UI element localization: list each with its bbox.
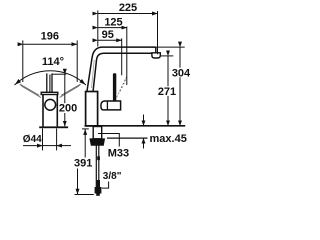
- arc arrowhead left: [15, 79, 21, 85]
- svg-text:391: 391: [74, 157, 92, 169]
- svg-text:M33: M33: [108, 147, 129, 159]
- dim 271 vertical: [167, 56, 169, 126]
- dim 95 right ext: [121, 38, 123, 75]
- svg-text:125: 125: [104, 16, 122, 28]
- svg-text:225: 225: [119, 2, 137, 14]
- front spout tube lines: [46, 73, 48, 92]
- M33 threaded shank: [93, 127, 102, 139]
- svg-text:304: 304: [172, 67, 191, 79]
- dim 391 top ext tick: [82, 128, 89, 130]
- counter top line: [85, 125, 186, 127]
- svg-text:3/8": 3/8": [103, 171, 122, 182]
- ext line left shared 225/125/95: [97, 10, 99, 46]
- lever ghost text speckles: [120, 80, 126, 92]
- lever tilted ghost line: [117, 76, 127, 98]
- ext line 304 top: [152, 46, 185, 48]
- hose sleeve: [97, 156, 100, 160]
- svg-text:196: 196: [41, 31, 59, 43]
- swung spout ghost right: [60, 84, 81, 97]
- spout inner shading line: [92, 60, 95, 88]
- dim 125 line: [98, 27, 127, 29]
- dim 391 lower segment: [77, 169, 79, 195]
- svg-text:271: 271: [158, 86, 176, 98]
- dim o44 left ext: [42, 128, 44, 150]
- svg-text:200: 200: [59, 103, 77, 115]
- dim 200 vertical: [64, 74, 66, 126]
- dim 225 line: [98, 13, 158, 15]
- column sides: [42, 95, 44, 127]
- ext line 271 top: [161, 55, 173, 57]
- dim o44 line left tail with arrow: [23, 145, 43, 147]
- label 304: [173, 68, 191, 78]
- dim 196 right ext: [76, 40, 78, 82]
- ball circle: [45, 99, 56, 110]
- dim 200 top ext: [52, 73, 66, 75]
- svg-text:114°: 114°: [42, 56, 64, 68]
- mounting nut: [90, 139, 105, 146]
- swung spout ghost left: [20, 84, 41, 97]
- swivel arc 114: [15, 71, 86, 85]
- dim max45 upper arrow: [143, 115, 145, 126]
- label 200: [60, 103, 76, 113]
- swivel cap bar: [41, 92, 58, 94]
- arc arrowhead right: [79, 79, 85, 85]
- base bar: [39, 126, 68, 128]
- connector stub: [96, 194, 100, 196]
- handle housing: [101, 101, 121, 110]
- svg-text:Ø44: Ø44: [23, 134, 42, 145]
- dim o44 right ext: [56, 128, 58, 150]
- dim max45 lower arrow: [143, 138, 145, 148]
- lever rod: [113, 73, 116, 101]
- dim 225 right ext: [157, 11, 159, 54]
- svg-text:95: 95: [102, 29, 114, 41]
- dim 125 right ext: [126, 27, 128, 86]
- dim 391 upper segment: [84, 129, 86, 157]
- dim 95 line: [98, 39, 122, 41]
- hose lower dark segment: [97, 180, 100, 187]
- svg-text:max.45: max.45: [150, 133, 187, 145]
- dim o44 right tail with arrow: [57, 145, 71, 147]
- dim 304 vertical: [179, 47, 181, 126]
- counter bottom line: [107, 137, 148, 139]
- dim o44 middle segment: [43, 145, 57, 147]
- M33 leader: [98, 134, 119, 147]
- label 271: [159, 86, 176, 96]
- dim 196 line: [23, 43, 77, 45]
- aerator tip: [152, 53, 160, 58]
- dim 391 bottom ext tick: [75, 194, 94, 196]
- body (cartridge housing): [86, 92, 98, 126]
- 3/8 leader: [102, 182, 109, 189]
- supply hoses: [95, 145, 97, 187]
- 3/8 inch connector block: [95, 187, 102, 194]
- dim 196 left ext: [22, 40, 24, 82]
- spout outline (L-shaped tube): [87, 47, 156, 92]
